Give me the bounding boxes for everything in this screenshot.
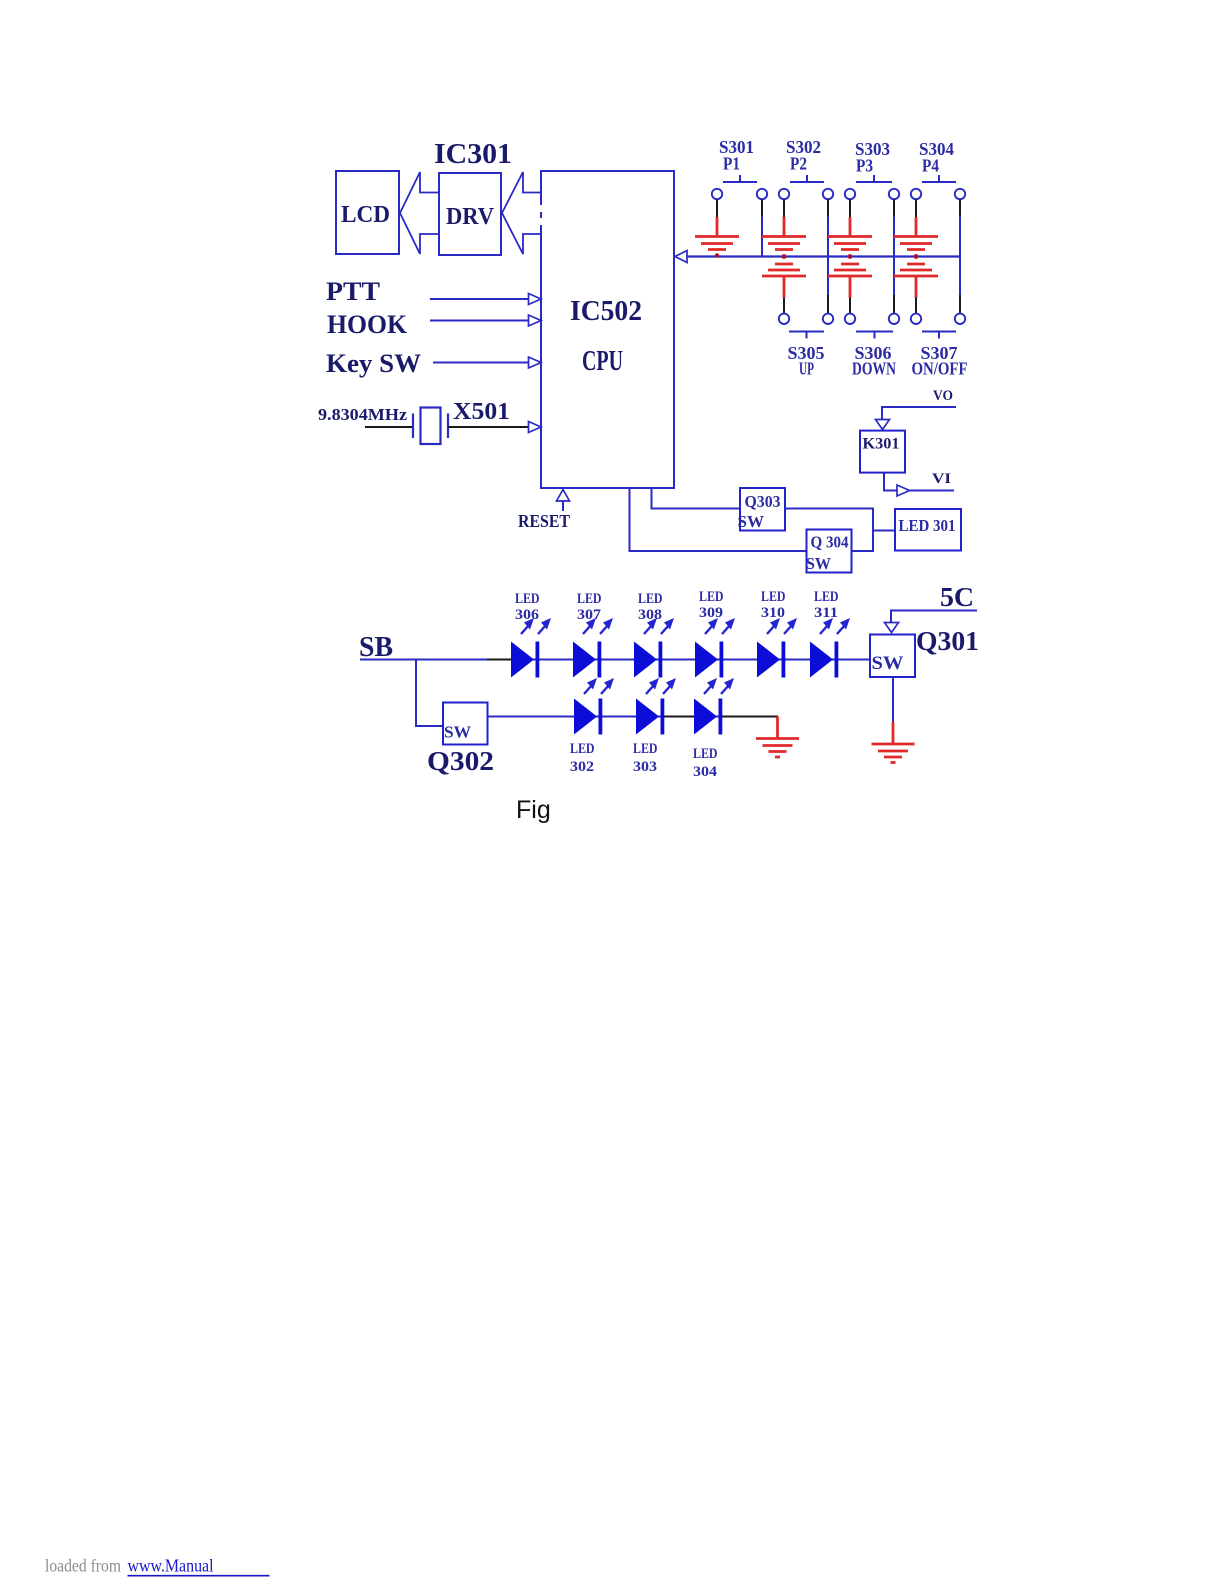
svg-text:Q302: Q302 bbox=[427, 746, 494, 776]
ground col 916 upper bbox=[894, 217, 938, 250]
bus arrow DRV to LCD bbox=[400, 172, 439, 254]
wire VO to K301 bbox=[882, 407, 956, 419]
svg-text:UP: UP bbox=[799, 359, 814, 379]
ground col 784 upper bbox=[762, 217, 806, 250]
wire stub col 784 bottom bbox=[783, 298, 785, 314]
svg-text:X501: X501 bbox=[453, 399, 510, 425]
svg-text:5C: 5C bbox=[940, 582, 974, 612]
svg-text:VI: VI bbox=[932, 471, 951, 487]
LED309 label bbox=[699, 589, 724, 621]
LED310 bbox=[757, 642, 785, 678]
wire stub col 717 bbox=[716, 200, 718, 218]
svg-text:308: 308 bbox=[638, 607, 662, 623]
junction dot col 916 bbox=[914, 254, 919, 259]
svg-text:P3: P3 bbox=[856, 156, 873, 176]
switch S304 bracket bbox=[922, 175, 956, 182]
transistor Q302 switch bbox=[443, 703, 488, 745]
wire Q301 to ground bbox=[892, 677, 894, 722]
svg-text:P2: P2 bbox=[790, 154, 807, 174]
wire LED row 2 bbox=[488, 716, 779, 718]
svg-text:9.8304MHz: 9.8304MHz bbox=[318, 405, 407, 424]
wire stub col 916 top bbox=[915, 200, 917, 218]
LED307 label bbox=[577, 591, 602, 623]
wire SB branch to Q302 bbox=[416, 660, 443, 727]
svg-text:SB: SB bbox=[359, 631, 393, 663]
wire VI bbox=[910, 490, 955, 492]
svg-text:LED: LED bbox=[638, 591, 663, 607]
switch S307 bracket bbox=[922, 332, 956, 339]
svg-text:311: 311 bbox=[814, 605, 838, 621]
switch S305 bracket bbox=[789, 332, 824, 339]
svg-text:LCD: LCD bbox=[341, 202, 390, 228]
svg-text:304: 304 bbox=[693, 764, 717, 780]
svg-text:P4: P4 bbox=[922, 156, 939, 176]
LED311 bbox=[810, 642, 838, 678]
wire col 828 bbox=[827, 200, 829, 314]
LED308 emission arrows bbox=[644, 618, 674, 634]
wire col 894 bbox=[893, 200, 895, 314]
wire Key SW bbox=[433, 362, 528, 364]
wire crystal to CPU bbox=[448, 426, 528, 428]
ground col 717 bbox=[695, 217, 739, 250]
ground col 784 lower bbox=[762, 264, 806, 298]
wire LED row 1 bbox=[360, 659, 870, 661]
wire segment black row2 bbox=[661, 716, 694, 718]
LED310 label bbox=[761, 589, 786, 621]
svg-text:LED: LED bbox=[570, 741, 595, 757]
svg-text:SW: SW bbox=[738, 512, 765, 531]
svg-text:309: 309 bbox=[699, 605, 723, 621]
transistor Q301 switch bbox=[870, 635, 915, 678]
wire stub col 784 top bbox=[783, 200, 785, 218]
junction dot col 784 bbox=[782, 254, 787, 259]
svg-text:Q301: Q301 bbox=[916, 626, 979, 656]
LED310 emission arrows bbox=[767, 618, 797, 634]
wire segment black row2 to ground bbox=[720, 716, 779, 718]
pin arrow X501 bbox=[529, 422, 542, 433]
svg-text:LED: LED bbox=[577, 591, 602, 607]
svg-text:Fig: Fig bbox=[516, 796, 551, 824]
wire col 960 bbox=[959, 200, 961, 314]
LED304 label bbox=[693, 746, 718, 780]
wire stub col 850 bottom bbox=[849, 298, 851, 314]
svg-text:Key SW: Key SW bbox=[326, 349, 421, 378]
LED306 emission arrows bbox=[521, 618, 551, 634]
svg-text:RESET: RESET bbox=[518, 511, 570, 531]
LED303 bbox=[636, 699, 664, 735]
svg-text:306: 306 bbox=[515, 607, 539, 623]
LED306 bbox=[511, 642, 539, 678]
wire key bus bbox=[687, 255, 961, 257]
svg-text:loaded from: loaded from bbox=[45, 1556, 121, 1576]
pin arrow VI bbox=[897, 485, 910, 496]
svg-text:302: 302 bbox=[570, 759, 594, 775]
wire node to LED301 bbox=[873, 530, 895, 532]
LED303 emission arrows bbox=[646, 678, 676, 694]
wire Q303 to LED301 node bbox=[785, 509, 873, 552]
LED308 label bbox=[638, 591, 663, 623]
transistor Q304 switch bbox=[806, 530, 852, 574]
pin arrow key bus into CPU bbox=[675, 251, 687, 263]
svg-text:IC502: IC502 bbox=[570, 295, 642, 327]
pin arrow into Q301 bbox=[885, 623, 899, 633]
LED302 bbox=[574, 699, 602, 735]
svg-text:310: 310 bbox=[761, 605, 785, 621]
wire CPU to Q303 bbox=[652, 488, 741, 509]
switch S306 bracket bbox=[856, 332, 893, 339]
ground Q301 bbox=[872, 722, 915, 763]
wire K301 to VI bbox=[884, 473, 897, 491]
block LCD bbox=[336, 171, 399, 254]
transistor Q303 switch bbox=[738, 488, 786, 531]
LED309 emission arrows bbox=[705, 618, 735, 634]
pin arrow PTT bbox=[529, 294, 542, 305]
wire HOOK bbox=[430, 320, 528, 322]
bus arrow IC502 to DRV bbox=[502, 172, 541, 254]
LED304 bbox=[694, 699, 722, 735]
LED307 bbox=[573, 642, 601, 678]
LED303 label bbox=[633, 741, 658, 775]
svg-text:SW: SW bbox=[806, 554, 831, 573]
svg-text:307: 307 bbox=[577, 607, 601, 623]
svg-text:LED: LED bbox=[633, 741, 658, 757]
switch S303 bracket bbox=[856, 175, 892, 182]
svg-text:K301: K301 bbox=[863, 436, 900, 453]
ground LED row 2 bbox=[756, 717, 799, 758]
wire stub col 850 top bbox=[849, 200, 851, 218]
LED311 emission arrows bbox=[820, 618, 850, 634]
ground col 850 upper bbox=[828, 217, 872, 250]
LED304 emission arrows bbox=[704, 678, 734, 694]
switch S302 bracket bbox=[790, 175, 824, 182]
svg-text:IC301: IC301 bbox=[434, 138, 512, 170]
IC U502 CPU bbox=[540, 171, 674, 488]
svg-text:Q303: Q303 bbox=[745, 492, 781, 511]
svg-text:VO: VO bbox=[933, 388, 953, 404]
svg-text:LED: LED bbox=[693, 746, 718, 762]
pin arrow Key SW bbox=[529, 357, 542, 368]
terminal pins bottom row bbox=[779, 314, 789, 324]
svg-text:CPU: CPU bbox=[582, 345, 623, 377]
svg-text:LED: LED bbox=[814, 589, 839, 605]
LED308 bbox=[634, 642, 662, 678]
LED302 emission arrows bbox=[584, 678, 614, 694]
crystal X501 bbox=[413, 408, 448, 445]
ground col 850 lower bbox=[828, 264, 872, 298]
LED307 emission arrows bbox=[583, 618, 613, 634]
svg-text:LED: LED bbox=[699, 589, 724, 605]
wire col 762 bbox=[761, 200, 763, 257]
LED302 label bbox=[570, 741, 595, 775]
wire 5C to Q301 bbox=[891, 611, 977, 623]
pin RESET arrow bbox=[557, 490, 570, 512]
wire crystal left bbox=[365, 426, 412, 428]
LED311 label bbox=[814, 589, 839, 621]
LED309 bbox=[695, 642, 723, 678]
svg-text:303: 303 bbox=[633, 759, 657, 775]
svg-text:HOOK: HOOK bbox=[327, 310, 408, 339]
svg-text:www.Manual: www.Manual bbox=[128, 1556, 214, 1576]
svg-text:P1: P1 bbox=[723, 154, 740, 174]
svg-text:LED 301: LED 301 bbox=[899, 516, 956, 535]
svg-text:SW: SW bbox=[872, 653, 904, 674]
wire CPU to Q304 bbox=[630, 488, 807, 551]
ground col 916 lower bbox=[894, 264, 938, 298]
switch S301 bracket bbox=[723, 175, 757, 182]
svg-text:ON/OFF: ON/OFF bbox=[912, 359, 968, 379]
svg-text:LED: LED bbox=[515, 591, 540, 607]
footer link bbox=[128, 1556, 270, 1576]
svg-text:SW: SW bbox=[444, 723, 471, 742]
pin arrow into K301 bbox=[876, 420, 890, 430]
svg-text:DOWN: DOWN bbox=[852, 359, 896, 379]
wire segment black before LED306 bbox=[487, 659, 511, 661]
junction dot col 850 bbox=[848, 254, 853, 259]
terminal pins top row bbox=[712, 189, 722, 199]
svg-text:LED: LED bbox=[761, 589, 786, 605]
relay K301 bbox=[860, 431, 905, 473]
LED306 label bbox=[515, 591, 540, 623]
junction dot col 717 bbox=[715, 253, 719, 257]
pin arrow HOOK bbox=[529, 315, 542, 326]
wire PTT bbox=[430, 298, 528, 300]
block LED301 bbox=[895, 509, 961, 551]
wire stub col 916 bottom bbox=[915, 298, 917, 314]
svg-text:DRV: DRV bbox=[446, 204, 495, 230]
svg-text:Q 304: Q 304 bbox=[811, 533, 849, 552]
IC301 driver block DRV bbox=[439, 173, 501, 255]
svg-text:PTT: PTT bbox=[326, 277, 380, 306]
